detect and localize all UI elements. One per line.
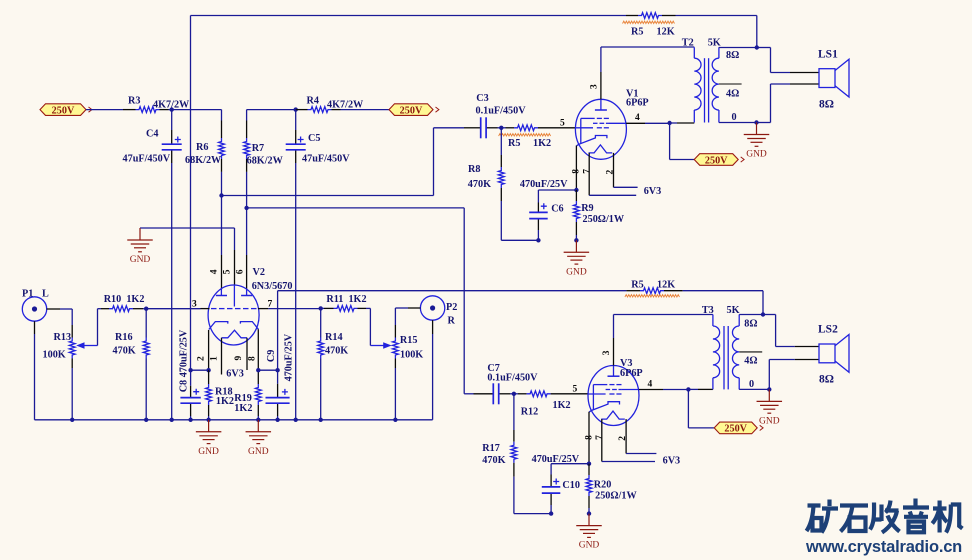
error marker R5c duplicate designator (499, 134, 551, 136)
svg-text:250V: 250V (724, 424, 747, 435)
node rail junction C4 (170, 418, 174, 422)
svg-text:470K: 470K (482, 455, 505, 466)
wire 4-ohm tap (739, 351, 762, 353)
svg-text:4: 4 (635, 113, 640, 123)
resistor R5c pins (501, 127, 514, 129)
svg-text:6: 6 (236, 269, 246, 274)
pin V1.7 (588, 153, 590, 195)
node R20 ground junction (587, 511, 591, 515)
resistor R18 (206, 384, 212, 405)
svg-text:5K: 5K (708, 38, 721, 49)
wire V2 shield inside (233, 285, 235, 307)
capacitor C7 (493, 383, 498, 404)
capacitor C9 pins (277, 370, 279, 416)
svg-text:8: 8 (584, 435, 594, 440)
svg-text:100K: 100K (400, 349, 423, 360)
pin V1.3 (600, 72, 602, 99)
svg-text:0: 0 (749, 379, 754, 390)
tube V3 cathode (589, 402, 619, 412)
svg-text:4: 4 (210, 269, 220, 274)
node rail junction R18 (206, 418, 210, 422)
capacitor C6 (529, 203, 548, 218)
capacitor C10 (542, 479, 561, 494)
svg-text:C5: C5 (308, 133, 320, 144)
svg-text:4: 4 (648, 379, 653, 389)
node V2 plate B junction (244, 206, 248, 210)
wire feedback top (191, 15, 627, 17)
capacitor C8 (180, 389, 200, 404)
svg-text:GND: GND (566, 267, 587, 277)
node R9 ground junction (574, 238, 578, 242)
svg-text:R6: R6 (196, 142, 208, 153)
pin V2.6 (246, 255, 248, 289)
potentiometer R15 wiper (370, 342, 391, 349)
svg-text:C4: C4 (146, 129, 158, 140)
capacitor C10 pins (550, 475, 552, 514)
resistor R16 pins (145, 309, 147, 338)
resistor R7 pins (246, 121, 248, 172)
resistor R11 pins (324, 307, 366, 309)
transformer T2 (694, 47, 719, 122)
resistor R3 (136, 107, 160, 113)
pin V3.8 (588, 412, 590, 464)
svg-text:1K2: 1K2 (234, 403, 252, 414)
wire plate B to C7 (247, 208, 474, 394)
wire C9 to rail (277, 416, 279, 420)
svg-text:2: 2 (197, 356, 207, 361)
resistor R4 pins (296, 109, 341, 111)
node V1 grid junction (499, 126, 503, 130)
pin V1.4 (626, 122, 645, 124)
wire V1 heater 7 to 6V3 (589, 194, 636, 196)
ground GND3 (246, 420, 271, 457)
node rail junction C8 (188, 418, 192, 422)
wire C5 to ground rail (295, 163, 297, 420)
svg-text:R15: R15 (400, 335, 418, 346)
pin V2.9 heater lead (246, 338, 248, 370)
capacitor C5 pins (295, 110, 297, 163)
potentiometer R13 wiper (76, 342, 97, 349)
svg-text:470uF/25V: 470uF/25V (520, 179, 568, 190)
wire C4 to ground rail (171, 163, 173, 420)
node rail junction R14 (319, 418, 323, 422)
svg-text:12K: 12K (657, 280, 675, 291)
wire node to LS2 bottom (769, 360, 795, 390)
ground GND5 (744, 123, 770, 160)
svg-text:47uF/450V: 47uF/450V (302, 154, 350, 165)
svg-text:47uF/450V: 47uF/450V (123, 154, 171, 165)
svg-text:2: 2 (606, 170, 616, 175)
resistor R20 (586, 475, 592, 496)
svg-text:470uF/25V: 470uF/25V (284, 333, 295, 381)
wire node to LS1 bottom (757, 84, 791, 123)
svg-text:C9: C9 (266, 350, 277, 362)
resistor R5a (12K) (638, 13, 662, 19)
node LS2 hot junction (761, 312, 765, 316)
node rail junction R19 (256, 418, 260, 422)
wire R9 to ground node (575, 235, 577, 240)
svg-text:R11 1K2: R11 1K2 (326, 294, 366, 305)
tube V3 beam plates (g3) (593, 385, 621, 410)
pin V3.4 (639, 389, 663, 391)
svg-text:4Ω: 4Ω (726, 89, 739, 100)
node LS1 hot junction (755, 45, 759, 49)
wire V3 g2 to B+ node (663, 389, 688, 391)
resistor R5a pins (626, 15, 676, 17)
svg-text:7: 7 (595, 435, 605, 440)
pin V2.2 (208, 330, 210, 370)
pin LS2 bottom (795, 359, 819, 361)
wire R14 top (320, 308, 322, 337)
tube V2 cathode A (209, 322, 228, 330)
wire R6 to plate node (221, 172, 223, 196)
tube V1 control grid g1 (576, 127, 609, 129)
pin P2 signal (408, 307, 420, 309)
svg-text:8Ω: 8Ω (744, 319, 757, 330)
watermark logo (807, 499, 963, 533)
svg-text:1: 1 (210, 356, 220, 361)
pin P1 ground (34, 321, 36, 334)
potentiometer R13 (69, 338, 75, 359)
wire V3 plate to T3 (614, 315, 713, 339)
svg-text:8Ω: 8Ω (819, 374, 834, 386)
tube V2 envelope (208, 285, 259, 345)
node V3 cathode junction (587, 462, 591, 466)
node rail junction C5 (294, 418, 298, 422)
wire R16 to rail (145, 359, 147, 420)
pin LS2 top (795, 346, 819, 348)
tube V3 control grid g1 (588, 393, 621, 395)
svg-text:2: 2 (618, 436, 628, 441)
svg-text:R17: R17 (482, 443, 500, 454)
ground GND1 (127, 228, 153, 265)
wire T2 secondary top to node (719, 47, 757, 49)
node C10 bottom junction (549, 511, 553, 515)
wire P1 to R13 (60, 309, 72, 325)
wire port to R3 (86, 109, 123, 111)
svg-text:R5: R5 (631, 27, 643, 38)
ground GND6 (757, 389, 783, 426)
svg-text:GND: GND (746, 150, 767, 160)
wire R19 to rail (257, 416, 259, 420)
error marker R5a duplicate designator (623, 21, 675, 23)
wire C8 node to R18 node (191, 369, 209, 371)
svg-text:470K: 470K (468, 179, 491, 190)
node T3 primary B+ junction (686, 387, 690, 391)
tube V2 plate A (216, 295, 227, 297)
node C5 tap junction (294, 107, 298, 111)
pin LS1 bottom (790, 83, 819, 85)
node V2 grid A junction (144, 307, 148, 311)
resistor R5b (12K) (640, 288, 664, 294)
power port P250a 250V (40, 104, 92, 117)
node V2 grid B junction (319, 306, 323, 310)
svg-text:R14: R14 (325, 332, 343, 343)
resistor R8 pins (500, 128, 502, 201)
svg-text:9: 9 (234, 356, 244, 361)
node C9 top junction (275, 368, 279, 372)
wire GND to V2 shield pin5 (140, 228, 235, 250)
resistor R5c (1K2 grid stopper) (514, 125, 538, 131)
wire V3 heater 2 to 6V3 (626, 453, 656, 455)
resistor R17 (511, 442, 517, 463)
node V2 plate A junction (219, 193, 223, 197)
speaker LS1 (819, 59, 849, 97)
wire P1 ground to rail (34, 334, 36, 420)
capacitor C6 pins (537, 203, 539, 241)
node C4 tap junction (170, 107, 174, 111)
wire V2 plate lead B inside (246, 289, 248, 295)
wire node to 250V port (688, 389, 714, 428)
svg-text:T2: T2 (682, 38, 694, 49)
svg-text:5: 5 (560, 119, 565, 129)
wire grid node to V2 pin7 (268, 308, 320, 310)
svg-text:R13: R13 (54, 332, 72, 343)
capacitor C3 (481, 117, 486, 138)
svg-text:250Ω/1W: 250Ω/1W (583, 214, 625, 225)
capacitor C7 pins (474, 393, 511, 395)
wire node to 250V port (670, 123, 695, 160)
svg-text:3: 3 (602, 350, 612, 355)
pin V2.1 heater lead (221, 338, 223, 375)
svg-text:C3: C3 (476, 93, 488, 104)
wire R14 to rail (320, 359, 322, 420)
potentiometer R15 (393, 338, 399, 359)
pin V2.7 (258, 308, 268, 310)
capacitor C5 (286, 137, 306, 150)
pin V1.5 (538, 127, 576, 129)
wire R3 to node (169, 109, 172, 111)
ground GND2 (196, 420, 222, 457)
wire V1 g2 to B+ node (645, 122, 670, 124)
resistor R11 (334, 306, 358, 312)
wire T3 secondary top to node (739, 314, 763, 316)
svg-text:1K2: 1K2 (553, 400, 571, 411)
svg-text:8Ω: 8Ω (726, 50, 739, 61)
svg-text:5: 5 (573, 385, 578, 395)
resistor R19 (255, 384, 261, 405)
svg-text:www.crystalradio.cn: www.crystalradio.cn (805, 538, 962, 556)
tube V2 heater (222, 330, 248, 338)
wire wiper to R11 (366, 308, 370, 345)
wire R5a to 8ohm node (676, 16, 757, 48)
wire feedback left vertical (190, 16, 192, 371)
capacitor C3 pins (464, 127, 498, 129)
svg-text:LS2: LS2 (818, 323, 838, 335)
svg-text:68K/2W: 68K/2W (247, 156, 284, 167)
wire V2 pin4 lead (221, 196, 223, 256)
node rail junction R16 (144, 418, 148, 422)
resistor R18 pins (208, 370, 210, 416)
svg-text:8Ω: 8Ω (819, 99, 834, 111)
wire R7 top corner (247, 110, 296, 121)
svg-text:LS1: LS1 (818, 49, 838, 61)
tube V2 cathode B (240, 322, 258, 330)
wire R20 to ground node (588, 508, 590, 514)
speaker LS2 (819, 335, 849, 373)
svg-text:0.1uF/450V: 0.1uF/450V (487, 373, 538, 384)
svg-text:R3: R3 (128, 96, 140, 107)
wire cathode to C10 (551, 464, 589, 475)
capacitor C8 pins (190, 370, 192, 416)
wire C3 to grid node (498, 127, 502, 129)
svg-text:R4: R4 (307, 96, 319, 107)
svg-text:R5: R5 (508, 138, 520, 149)
svg-text:6P6P: 6P6P (626, 98, 649, 109)
svg-text:12K: 12K (657, 27, 675, 38)
pin V2.3 (201, 308, 210, 310)
svg-text:6V3: 6V3 (663, 456, 681, 467)
wire wiper to R10 (98, 309, 102, 346)
pin P2 ground (432, 320, 434, 334)
ground GND7 (576, 514, 602, 551)
pin V3.7 (601, 419, 603, 461)
resistor R7 (244, 138, 250, 159)
node V2 cathode A junction (206, 368, 210, 372)
wire R4 to port (341, 109, 390, 111)
resistor R12 (527, 391, 551, 397)
resistor R4 (308, 107, 332, 113)
svg-text:GND: GND (198, 447, 219, 457)
svg-text:L: L (42, 289, 49, 300)
svg-text:100K: 100K (43, 349, 66, 360)
svg-text:4Ω: 4Ω (744, 356, 757, 367)
svg-text:250V: 250V (400, 105, 423, 116)
svg-text:1K2: 1K2 (216, 396, 234, 407)
svg-text:R10 1K2: R10 1K2 (104, 294, 145, 305)
pin V3.3 (613, 338, 615, 366)
potentiometer R13 pins (71, 325, 73, 368)
error marker R5b duplicate designator (625, 295, 680, 297)
node rail junction R13 (70, 418, 74, 422)
resistor R20 pins (588, 464, 590, 508)
svg-text:R8: R8 (468, 164, 480, 175)
node rail junction C9 (275, 418, 279, 422)
wire 4-ohm tap (719, 83, 742, 85)
svg-text:R5: R5 (631, 280, 643, 291)
svg-text:8: 8 (248, 356, 258, 361)
resistor R9 pins (575, 190, 577, 235)
pin V3.2 (625, 419, 627, 453)
wire R7 to coupling node (246, 172, 248, 208)
resistor R3 pins (123, 109, 169, 111)
svg-text:GND: GND (579, 541, 600, 551)
wire R11 to grid node (321, 307, 324, 309)
svg-text:250V: 250V (52, 105, 75, 116)
tube V2 grid line (211, 308, 257, 310)
svg-text:1K2: 1K2 (533, 138, 551, 149)
wire V2 plate lead A inside (220, 289, 222, 296)
wire R10 to grid node (143, 308, 146, 310)
potentiometer R15 pins (394, 325, 396, 368)
connector P2 (420, 296, 444, 320)
node V3 grid junction (512, 392, 516, 396)
resistor R8 (498, 167, 504, 188)
ground GND4 (564, 240, 590, 277)
svg-text:6P6P: 6P6P (620, 368, 643, 379)
wire node to LS1 top (757, 48, 790, 73)
capacitor C4 pins (171, 110, 173, 163)
svg-text:V2: V2 (253, 267, 265, 278)
svg-text:R7: R7 (252, 143, 264, 154)
svg-text:GND: GND (130, 255, 151, 265)
wire ground rail (35, 419, 433, 421)
pin LS1 top (790, 72, 819, 74)
svg-text:250Ω/1W: 250Ω/1W (595, 491, 637, 502)
wire V2 pin6 lead (246, 208, 248, 255)
node LS2 return junction (767, 387, 771, 391)
wire C8 to rail (190, 416, 192, 420)
svg-text:250V: 250V (705, 155, 728, 166)
pin V2.5 (234, 250, 236, 285)
wire node to R6 corner (172, 110, 222, 121)
wire P2 to R15 (395, 308, 408, 325)
resistor R14 (318, 338, 324, 359)
node rail junction R15 (393, 418, 397, 422)
svg-text:0: 0 (732, 112, 737, 123)
node C6 bottom junction (536, 238, 540, 242)
svg-text:C8 470uF/25V: C8 470uF/25V (179, 329, 190, 392)
svg-text:R12: R12 (521, 407, 539, 418)
wire R5b to output node (683, 291, 763, 315)
svg-text:GND: GND (759, 416, 780, 426)
svg-text:R: R (448, 316, 456, 327)
tube V1 heater (589, 145, 613, 153)
resistor R6 pins (221, 121, 223, 172)
svg-text:GND: GND (248, 447, 269, 457)
svg-text:6V3: 6V3 (644, 186, 662, 197)
capacitor C4 (162, 137, 182, 150)
wire R13 bottom to rail (71, 368, 73, 420)
pin V2.8 (257, 329, 259, 370)
svg-text:P1: P1 (22, 289, 33, 300)
transformer T3 (713, 315, 739, 390)
svg-text:8: 8 (572, 169, 582, 174)
wire feedback bottom (278, 291, 627, 371)
tube V1 envelope (575, 99, 626, 159)
resistor R17 pins (513, 394, 515, 477)
pin V3.5 (551, 393, 589, 395)
pin V1.8 (575, 146, 577, 191)
svg-text:4K7/2W: 4K7/2W (327, 100, 364, 111)
wire C7 to grid node (510, 393, 514, 395)
svg-text:0.1uF/450V: 0.1uF/450V (476, 106, 527, 117)
wire node to T3 primary (688, 388, 713, 390)
svg-text:7: 7 (583, 169, 593, 174)
tube V3 envelope (588, 366, 639, 426)
resistor R10 pins (101, 308, 143, 310)
pin V2.4 (221, 255, 223, 289)
wire V3 heater 7 to 6V3 (602, 461, 655, 463)
resistor R10 (109, 306, 133, 312)
wire R17 to cathode return (514, 477, 551, 514)
wire T3 secondary 0 to node (739, 388, 769, 390)
tube V1 cathode (577, 136, 607, 146)
power port P250b 250V (389, 104, 439, 117)
wire R15 bottom to rail (394, 368, 396, 420)
node LS1 return junction (754, 120, 758, 124)
resistor R12 pins (514, 393, 527, 395)
pin V1.2 (613, 153, 615, 187)
wire node to T2 primary (670, 122, 695, 124)
svg-text:R20: R20 (594, 479, 612, 490)
node V2 cathode B junction (256, 368, 260, 372)
wire T2 secondary 0 to node (719, 122, 757, 124)
wire plate node to C3 riser (222, 128, 465, 196)
svg-text:C6: C6 (551, 204, 563, 215)
wire V1 plate to T2 (601, 47, 694, 72)
wire R18 to rail (208, 416, 210, 420)
